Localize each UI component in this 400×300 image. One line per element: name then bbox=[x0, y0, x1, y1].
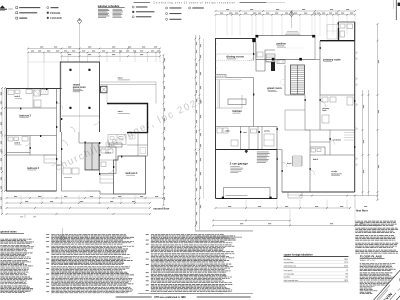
first floor top dimension text bbox=[220, 12, 223, 15]
garage note lines bbox=[230, 165, 240, 168]
hall door arcs bbox=[62, 140, 68, 146]
second floor bottom dimension line 1 bbox=[7, 197, 164, 199]
svg-text:bedroom 2: bedroom 2 bbox=[19, 115, 31, 117]
small attic access rooms bbox=[108, 135, 126, 145]
svg-text:F103.8L: F103.8L bbox=[50, 11, 61, 15]
linen rooms below attic wall bbox=[137, 133, 139, 156]
dining exterior wall left bbox=[216, 39, 254, 199]
first floor north leader bbox=[291, 17, 293, 28]
dining bottom buffet hatch bbox=[216, 75, 227, 78]
primary suite window sills bbox=[355, 52, 357, 53]
garage door label bbox=[226, 194, 248, 197]
first floor right dimension lines bbox=[362, 90, 364, 196]
first floor bottom dimension line B bbox=[216, 207, 351, 209]
legend key square 1 bbox=[16, 7, 18, 9]
svg-text:bath 4: bath 4 bbox=[106, 151, 111, 154]
svg-text:mud: mud bbox=[243, 132, 246, 134]
logo house icon bbox=[0, 5, 4, 8]
code compliance paragraph 2 bbox=[355, 227, 397, 230]
left wing exterior walls bbox=[7, 89, 62, 192]
bath2 closet divider bbox=[32, 89, 34, 109]
window schedule rows bbox=[98, 8, 109, 11]
laundry label bbox=[64, 176, 72, 179]
laundry walls bbox=[62, 165, 86, 191]
landing walls bbox=[78, 132, 80, 143]
legend column4 key 2 bbox=[166, 13, 168, 15]
legend note text 2 bbox=[19, 12, 37, 13]
svg-text:bath 4: bath 4 bbox=[313, 158, 318, 161]
game room post 2 bbox=[88, 69, 90, 71]
game room post 1 bbox=[69, 69, 71, 71]
svg-text:F103.8LW: F103.8LW bbox=[50, 18, 62, 20]
legend fixed glass tag 2 bbox=[47, 17, 49, 19]
game room walls bbox=[60, 62, 99, 132]
footer small note bbox=[138, 292, 253, 295]
svg-text:wardrobe: wardrobe bbox=[333, 140, 341, 142]
dining beam line bbox=[216, 60, 254, 62]
svg-text:foyer: foyer bbox=[287, 163, 292, 165]
powder room walls bbox=[339, 22, 355, 41]
kitchen island bbox=[228, 99, 246, 105]
second floor top extension lines bbox=[27, 54, 29, 63]
notes column A bbox=[0, 238, 31, 241]
dining window mullions bbox=[215, 43, 216, 45]
svg-text:bedroom 5: bedroom 5 bbox=[331, 173, 342, 175]
second floor top dimension line 3 bbox=[62, 55, 161, 57]
legend column3 key 1 bbox=[132, 6, 134, 8]
attic thick wall bbox=[107, 104, 148, 133]
logo tagline bbox=[8, 8, 13, 11]
butlers pantry walls bbox=[256, 43, 275, 72]
dining corner post bbox=[252, 38, 255, 42]
foyer walls bbox=[281, 150, 283, 193]
primary suite right wall bbox=[354, 22, 356, 192]
pavilion top wall bbox=[256, 35, 315, 37]
svg-text:bath 3: bath 3 bbox=[15, 142, 21, 145]
code compliance paragraph 5 bbox=[355, 249, 396, 252]
powder dark wall bbox=[338, 28, 339, 41]
svg-text:SCALE: 1/4" = 1'-0": SCALE: 1/4" = 1'-0" bbox=[360, 259, 376, 262]
bedroom3 closet bbox=[44, 155, 57, 163]
closet right of stairs bbox=[100, 175, 114, 183]
svg-text:pavilion: pavilion bbox=[277, 43, 287, 46]
first floor bottom dimension line C bbox=[213, 220, 290, 222]
svg-text:primary suite: primary suite bbox=[323, 57, 341, 61]
first floor bottom dimension line A bbox=[300, 195, 378, 197]
north arrow leader bbox=[79, 24, 81, 62]
dining right wall bbox=[253, 43, 255, 61]
svg-text:2 car garage: 2 car garage bbox=[230, 162, 249, 166]
second floor bottom dimension line 2 bbox=[7, 202, 151, 204]
svg-text:game room: game room bbox=[73, 86, 86, 89]
title block address lines bbox=[360, 285, 375, 288]
pavilion side walls bbox=[255, 36, 257, 60]
svg-text:square footage tabulation: square footage tabulation bbox=[284, 254, 314, 257]
game room post 3 bbox=[69, 107, 71, 109]
legend column3 key 2 bbox=[132, 11, 134, 13]
primary suite top wall bbox=[320, 40, 355, 42]
bath3 wall bbox=[7, 152, 31, 154]
svg-text:dining room: dining room bbox=[226, 54, 244, 58]
top banner rule left bbox=[134, 1, 151, 3]
svg-text:kitchen: kitchen bbox=[233, 109, 243, 113]
wardrobe shelves bbox=[344, 132, 355, 134]
svg-text:bedroom 3: bedroom 3 bbox=[27, 168, 39, 170]
notes column B numbers bbox=[46, 233, 49, 236]
game room post 4 bbox=[88, 107, 90, 109]
garage door posts bbox=[222, 197, 224, 199]
first floor top dimension line 1 bbox=[216, 10, 356, 12]
footer rule right bbox=[197, 296, 251, 298]
svg-text:bath: bath bbox=[323, 109, 327, 112]
kitchen right wall bbox=[253, 78, 255, 127]
svg-text:pantry: pantry bbox=[264, 129, 270, 132]
door jambs second floor bbox=[56, 102, 57, 104]
attic left boundary bbox=[106, 84, 108, 103]
first floor inner-left dimension line bbox=[203, 39, 205, 199]
svg-text:window schedule: window schedule bbox=[98, 4, 120, 8]
front stoop bbox=[288, 192, 302, 198]
second floor bottom dimension line 4 bbox=[7, 213, 151, 215]
wic walls bbox=[109, 143, 122, 147]
left wing inner wall bbox=[56, 89, 58, 192]
first floor footnote row 1 bbox=[195, 230, 253, 233]
square footage total rule bbox=[284, 281, 349, 283]
notes column B bbox=[51, 233, 126, 236]
pavilion corner blocks bbox=[255, 35, 258, 38]
chimney box bbox=[101, 86, 107, 93]
second floor bottom dimension line 3 bbox=[7, 207, 151, 209]
hall walls right wing bbox=[284, 65, 286, 95]
legend key square 2 bbox=[16, 12, 18, 14]
garage keynote diamond bbox=[245, 149, 248, 153]
attic upper boundary lines bbox=[100, 81, 156, 83]
garage bottom wall bbox=[216, 198, 278, 200]
left dimension column bbox=[1, 88, 3, 214]
svg-text:KTD was established in 1986: KTD was established in 1986 bbox=[154, 296, 186, 299]
footer rule left bbox=[116, 296, 152, 298]
code compliance paragraph 4 bbox=[355, 242, 398, 245]
legend WDW text bbox=[51, 7, 59, 8]
legend column5 key bbox=[189, 7, 191, 9]
dining kitchen divider bbox=[226, 77, 254, 79]
svg-text:bath 2: bath 2 bbox=[15, 95, 21, 98]
second floor north arrow bbox=[77, 18, 81, 24]
svg-text:utility: utility bbox=[225, 129, 230, 132]
title block body text bbox=[360, 262, 396, 265]
keynote diamond bottom bbox=[61, 236, 65, 241]
hall cluster center bbox=[305, 95, 320, 130]
bottom walls of plan bbox=[85, 190, 100, 192]
hall wall bbox=[7, 135, 57, 137]
svg-text:Celebrating over 31 years of d: Celebrating over 31 years of design inno… bbox=[153, 2, 235, 5]
first floor footnote row 2 bbox=[195, 236, 242, 239]
top banner rule right bbox=[240, 1, 267, 3]
svg-text:first floor: first floor bbox=[284, 258, 291, 261]
first floor bottom extension lines bbox=[245, 200, 247, 209]
left wing window openings bbox=[6, 94, 7, 96]
second floor top dimension line 1 bbox=[28, 48, 160, 50]
svg-text:total covered area: total covered area bbox=[284, 279, 298, 282]
garage top wall bbox=[216, 149, 278, 151]
door arcs second floor bbox=[57, 103, 63, 109]
svg-text:attic/: attic/ bbox=[118, 110, 123, 113]
bath2 shower hatch bbox=[38, 90, 40, 95]
bedroom3 top wall bbox=[7, 154, 57, 156]
bath4 first floor walls bbox=[310, 147, 325, 155]
stair block first floor bbox=[266, 54, 275, 62]
game room window mullions bbox=[65, 62, 67, 63]
wardrobe walls bbox=[329, 130, 331, 155]
second floor lower-left dim marks bbox=[24, 214, 26, 218]
bath2 bedroom2 divider bbox=[7, 107, 57, 109]
garage side note bbox=[257, 151, 269, 154]
legend column3 key 3 bbox=[132, 16, 134, 18]
logo wordmark bbox=[0, 9, 7, 10]
door jambs first floor bbox=[253, 53, 254, 55]
bath4 walls bbox=[100, 147, 117, 174]
legend fixed glass tag 1 bbox=[47, 12, 49, 14]
svg-text:general notes: general notes bbox=[0, 230, 17, 233]
first floor bottom dimension line D bbox=[213, 225, 378, 227]
wall right of bedroom4 bbox=[147, 133, 149, 156]
pavilion posts bbox=[272, 58, 275, 61]
svg-text:FLOOR PLANS: FLOOR PLANS bbox=[360, 255, 382, 259]
first floor stairwell bbox=[291, 65, 305, 94]
stairwell bbox=[85, 143, 99, 170]
legend key circle WDW bbox=[47, 7, 49, 9]
second floor extension lines bottom bbox=[20, 195, 22, 203]
svg-text:W.I.C.: W.I.C. bbox=[111, 145, 116, 147]
bath4 hatch bbox=[98, 147, 101, 150]
pavilion centerline bbox=[285, 47, 305, 49]
legend note text 1 bbox=[19, 7, 40, 8]
study walls bbox=[310, 155, 355, 192]
second floor bottom dimension text bbox=[14, 195, 17, 198]
sheet corner mark top right bbox=[395, 0, 397, 20]
great room to suite link wall bbox=[315, 58, 320, 60]
pavilion entry steps bbox=[287, 31, 298, 33]
door arcs first floor bbox=[249, 55, 255, 61]
great room ceiling mark bbox=[280, 79, 285, 84]
dining ceiling line bbox=[216, 53, 254, 55]
bedroom4 walls bbox=[114, 156, 146, 194]
first floor top dimension line 2 bbox=[216, 14, 356, 16]
bath2 fixtures bbox=[8, 90, 14, 95]
notes column C numbers bbox=[146, 233, 149, 236]
great room fireplace bbox=[277, 60, 285, 63]
right wing bottom wall bbox=[282, 191, 355, 193]
utility row walls bbox=[240, 127, 242, 150]
kitchen counters bbox=[219, 80, 221, 108]
primary bath fixtures bbox=[322, 97, 328, 102]
utility fixtures bbox=[217, 128, 222, 133]
notes column C bbox=[151, 233, 224, 236]
right dimension column of second floor bbox=[163, 55, 165, 205]
hall walls center bbox=[61, 132, 63, 165]
primary bath walls bbox=[320, 94, 355, 96]
second floor top dimension text bbox=[31, 50, 34, 53]
legend column4 key 1 bbox=[166, 7, 168, 9]
first floor bottom dimension text bbox=[228, 205, 231, 208]
first floor left dimension column bbox=[195, 35, 197, 230]
svg-text:great room: great room bbox=[267, 86, 282, 90]
code compliance paragraph 1 bbox=[355, 220, 396, 223]
legend column4 key 3 bbox=[166, 18, 168, 20]
code compliance paragraph 3 bbox=[355, 234, 394, 237]
svg-text:first floor: first floor bbox=[356, 208, 368, 212]
pavilion bottom beam bbox=[256, 58, 315, 60]
garage right wall bbox=[276, 150, 278, 199]
svg-text:attic/: attic/ bbox=[118, 77, 123, 80]
roof outline below left wing bbox=[28, 62, 62, 89]
legend note text 3 bbox=[19, 18, 27, 19]
svg-text:bedroom 4: bedroom 4 bbox=[126, 172, 138, 175]
garage door recess bbox=[224, 188, 271, 199]
dark wall block hall bbox=[271, 62, 275, 71]
utility row top wall bbox=[216, 126, 278, 128]
legend key square 3 bbox=[16, 17, 18, 19]
linen closet bbox=[34, 90, 41, 96]
primary suite left wall bbox=[319, 41, 321, 95]
bath3 fixtures bbox=[8, 137, 13, 141]
square footage subtotal rule bbox=[284, 267, 349, 269]
closet west of powder bbox=[327, 25, 337, 40]
first floor north arrow bbox=[289, 11, 293, 16]
second floor top dimension line 2 bbox=[28, 52, 160, 54]
foyer stairs small bbox=[293, 155, 303, 157]
kitchen counter second line bbox=[217, 80, 219, 108]
svg-text:second floor: second floor bbox=[153, 206, 169, 210]
stamp band bbox=[373, 262, 400, 300]
first floor top extension lines bbox=[215, 16, 217, 36]
svg-text:total living area: total living area bbox=[284, 264, 296, 267]
